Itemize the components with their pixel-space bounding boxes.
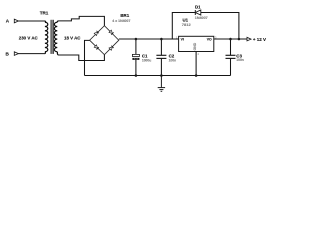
capacitor C3 (226, 39, 236, 76)
diode on bottom-right edge (109, 46, 114, 51)
junction dot C2 top (160, 38, 163, 41)
terminal B (6, 52, 19, 57)
svg-text:TR1: TR1 (40, 10, 49, 15)
bottom rail wire (85, 75, 231, 77)
junction dot C3 top (229, 38, 232, 41)
svg-text:D1: D1 (195, 5, 201, 10)
wire B to TR1 primary (18, 53, 44, 55)
diode D1 (195, 10, 201, 15)
wire regulator GND to bottom rail (195, 52, 197, 76)
svg-text:VO: VO (207, 38, 212, 42)
svg-text:BR1: BR1 (120, 13, 129, 18)
svg-text:1N4007: 1N4007 (195, 16, 208, 20)
wire bridge minus to bottom rail (85, 40, 90, 75)
svg-text:100n: 100n (236, 58, 244, 62)
transformer TR1 secondary winding (54, 21, 58, 55)
svg-text:230 V AC: 230 V AC (19, 36, 39, 41)
diode on top-right edge (109, 30, 114, 35)
svg-text:+ 12 V: + 12 V (253, 37, 266, 42)
regulator U1 (7812) box (179, 36, 214, 51)
svg-text:4 x 1N4007: 4 x 1N4007 (112, 19, 130, 23)
svg-text:1000u: 1000u (142, 58, 151, 62)
svg-text:18 V AC: 18 V AC (64, 36, 81, 41)
svg-text:100n: 100n (169, 58, 177, 62)
diode on left-top edge (94, 31, 99, 36)
wire bridge plus to regulator input (119, 38, 179, 40)
transformer TR1 core (51, 20, 53, 54)
diamond edges (90, 26, 119, 55)
svg-text:VI: VI (181, 38, 184, 42)
transformer TR1 primary winding (44, 21, 47, 54)
wire secondary top to bridge AC1 (59, 16, 105, 25)
junction dot ground (160, 74, 163, 77)
output pin +12V (247, 37, 266, 42)
capacitor C2 (156, 39, 166, 76)
wire D1 branch right (201, 13, 239, 40)
terminal A (6, 19, 19, 24)
bridge rectifier BR1 (90, 26, 119, 55)
capacitor C1 (electrolytic) (132, 39, 139, 76)
wire secondary bottom to bridge AC2 (59, 55, 105, 61)
junction dot C1 bottom (135, 74, 138, 77)
wire regulator output (214, 38, 247, 40)
svg-text:GND: GND (193, 42, 197, 50)
wire D1 branch left (172, 13, 195, 40)
svg-text:7812: 7812 (182, 22, 192, 27)
wire A to TR1 primary (18, 20, 44, 22)
junction dot C1 top (135, 38, 138, 41)
junction dot D1 right (238, 38, 241, 41)
ground (158, 76, 165, 92)
junction dot regulator GND (195, 74, 198, 77)
diode on left-bottom edge (94, 45, 99, 50)
